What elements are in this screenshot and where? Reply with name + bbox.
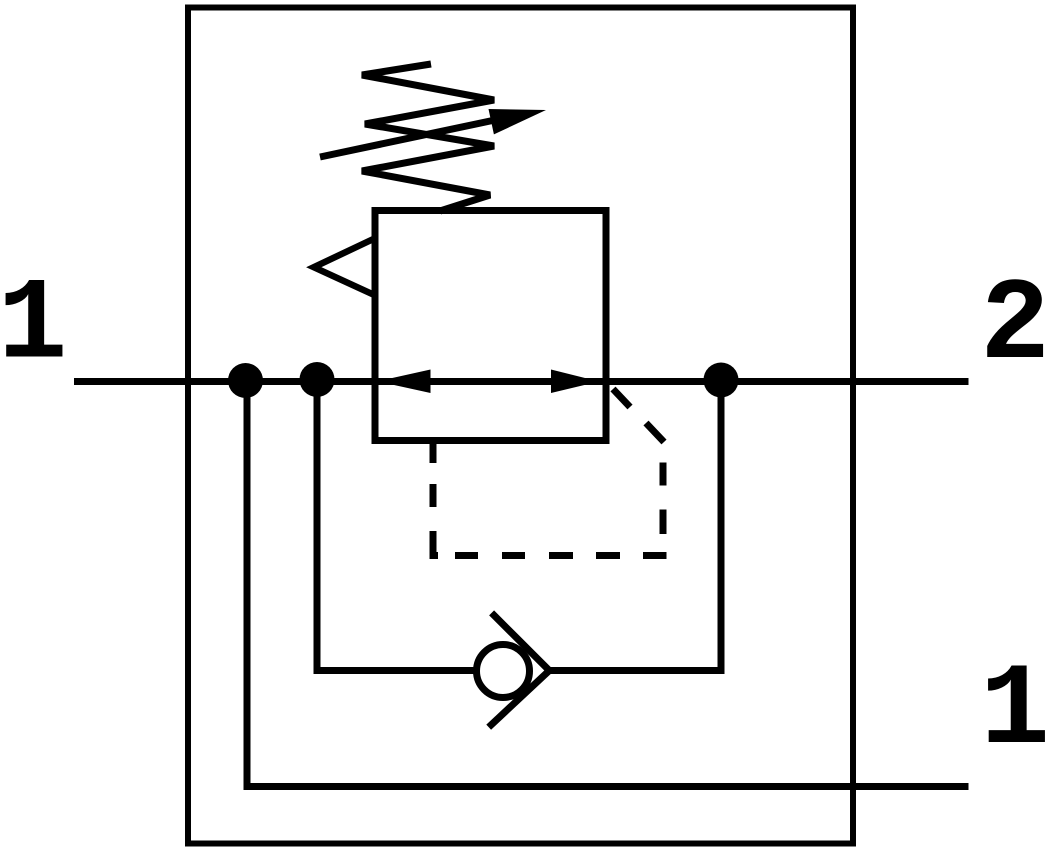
adjustment arrow shaft <box>320 119 502 158</box>
wire: vertical from dot C to check valve line <box>718 380 725 674</box>
pilot line dashed: left vertical <box>430 443 437 556</box>
flow arrow left (inside valve body) <box>378 370 431 394</box>
regulator valve body U1 <box>375 211 606 441</box>
relief vent triangle <box>314 238 375 295</box>
wire: check valve line left segment <box>314 667 477 674</box>
pilot line dashed: diagonal from valve corner <box>613 389 664 442</box>
flow arrow right (inside valve body) <box>551 370 599 394</box>
wire: vertical from dot A to exhaust line <box>244 381 251 783</box>
wire: main flow line port 1 to port 2 <box>74 378 969 385</box>
check valve seat <box>489 613 550 727</box>
wire: bottom exhaust line to port 1 <box>244 783 969 790</box>
adjustment arrow head <box>489 109 547 134</box>
svg-text:2: 2 <box>980 260 1050 392</box>
junction dot B <box>300 362 335 397</box>
junction dot C <box>704 363 739 398</box>
pilot line dashed: right vertical <box>660 463 667 557</box>
check valve ball <box>477 645 530 698</box>
junction dot A <box>228 363 263 398</box>
wire: vertical from dot B to check valve line <box>314 380 321 675</box>
enclosure frame <box>188 8 853 844</box>
svg-text:1: 1 <box>0 260 67 392</box>
wire: check valve line right segment <box>549 667 725 674</box>
pilot line dashed: bottom horizontal <box>430 552 667 559</box>
svg-text:1: 1 <box>980 645 1050 777</box>
adjustment spring <box>362 64 494 211</box>
